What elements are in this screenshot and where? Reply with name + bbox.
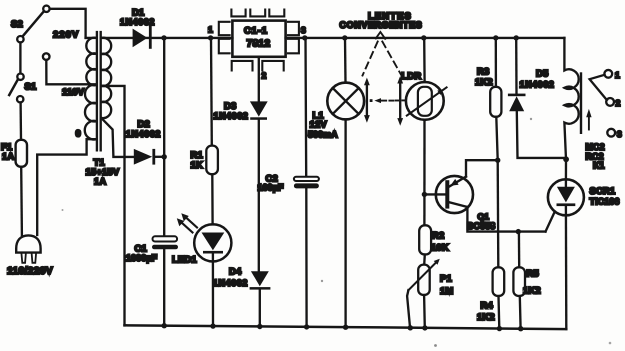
terminal 110V circle [43,53,50,60]
svg-text:110V: 110V [62,86,85,97]
svg-text:1A: 1A [94,176,106,187]
lens 2 [397,76,403,126]
svg-text:MC2: MC2 [586,142,605,152]
pointer vertex [376,32,385,39]
wire P1 to rail [423,295,426,328]
heatsink fin top 3 [269,10,284,17]
relay K1 coil [564,38,578,159]
junction dot D5 top [514,35,519,40]
svg-text:1K2: 1K2 [477,311,495,322]
relay armature arrow [586,109,591,130]
wire pin 2 down [258,57,260,102]
wire S1 to fuse [19,103,22,140]
svg-text:D2: D2 [138,118,150,129]
svg-text:1K: 1K [191,159,203,170]
junction dot rail C1 [162,323,167,328]
svg-text:CONVERGENTES: CONVERGENTES [340,20,423,30]
svg-text:C1: C1 [135,243,147,254]
plug prong 1 [21,253,26,263]
scan speck 5 [609,342,612,345]
potentiometer P1 [407,259,440,329]
top rail left segment [101,37,232,39]
diode D2 [134,149,164,165]
pointer dashed line left [363,42,378,76]
resistor R5 [513,267,525,296]
wire lamp top [344,38,347,83]
svg-text:1N4002: 1N4002 [520,80,555,90]
wire R4 to rail [497,296,500,329]
svg-text:R4: R4 [481,300,494,311]
scan speck 2 [62,209,64,211]
svg-text:12V: 12V [310,119,328,130]
wire R2 to P1 [423,255,426,265]
svg-text:2: 2 [616,98,621,108]
svg-text:R2: R2 [432,230,444,241]
wire 0 tap to plug prong2 [37,139,96,235]
svg-text:100µF: 100µF [258,183,285,193]
junction dot rail C2 [304,324,309,329]
heatsink fin top 2 [250,10,265,17]
junction dot D1 output [161,35,166,40]
svg-text:R3: R3 [477,66,489,77]
svg-text:10K: 10K [431,242,449,253]
top rail right segment [286,37,565,39]
svg-text:3: 3 [301,25,306,35]
junction dot Q1 base [422,192,427,197]
svg-text:S1: S1 [25,81,37,92]
transformer T1 primary winding upper [86,38,96,86]
wire LDR to base node [423,120,425,226]
svg-text:1K2: 1K2 [523,285,541,296]
light beam dash-dot arrow [370,98,406,103]
wire R3 top [495,38,497,87]
LED LED1 [194,224,231,261]
junction dot rail D4 [257,324,262,329]
svg-text:500mA: 500mA [308,130,338,140]
svg-text:BC558: BC558 [467,221,495,231]
wire Q1 emitter up [466,160,498,176]
scan speck 4 [530,118,532,120]
svg-text:0: 0 [76,128,81,139]
lens 1 [364,78,370,123]
relay contact 2 [606,98,614,106]
svg-text:TIC106: TIC106 [590,197,620,207]
wire R3 to node A [496,117,497,160]
svg-text:D5: D5 [536,68,548,79]
bottom rail [125,325,567,329]
wire D4 to rail [259,290,261,327]
LED1 light arrow 1 [181,213,197,227]
svg-text:SCR1: SCR1 [590,185,616,196]
heatsink fin top 1 [231,10,245,17]
heatsink fin bottom 2 [262,61,283,71]
capacitor C1 [152,236,178,249]
svg-text:1N4002: 1N4002 [120,17,155,27]
svg-text:C1-1: C1-1 [244,25,268,36]
regulator U1 body 7812 [232,21,285,57]
wire D3 to D4 [258,120,260,271]
junction dot LDR top [421,35,426,40]
scan speck 1 [321,280,323,282]
transistor Q1 [436,176,473,213]
wire lamp to rail [344,119,346,327]
svg-text:220V: 220V [53,29,79,40]
svg-text:1000µF: 1000µF [126,253,158,263]
wire S2 top to 220V tap [50,9,86,38]
diode D3 [250,101,268,119]
wire R5 tap down [518,232,521,268]
wire Q1 base [424,193,445,195]
junction dot rail R4 [497,326,502,331]
junction dot SCR anode [563,156,569,162]
plug prong 2 [32,253,36,263]
fuse F1 [16,140,27,167]
wire secondary bottom tap to D2 [101,118,133,157]
junction dot pin1 [208,35,213,40]
heatsink fin right 2 [288,39,299,54]
junction dot rail R5 [518,326,523,331]
svg-text:D3: D3 [224,100,236,111]
junction dot D2 output [162,154,167,159]
wire C1 to rail [163,249,165,325]
wire R1 column [210,38,213,146]
scan speck 3 [434,344,437,347]
wire 110V terminal to tap [46,60,96,84]
svg-text:P1: P1 [440,273,452,284]
heatsink fin left 1 [219,22,230,35]
diode D5 [508,94,566,160]
svg-text:1N4002: 1N4002 [214,111,249,121]
svg-text:D4: D4 [229,266,242,277]
junction dot R3 top [493,35,498,40]
relay contact 1 [604,70,612,78]
junction dot R5 tap [516,229,521,234]
resistor R2 [419,225,431,254]
plug body [16,235,40,252]
svg-text:LED1: LED1 [172,254,197,265]
pointer dashed line right [382,42,401,76]
junction dot rail LED1 [210,323,215,328]
svg-text:1N4002: 1N4002 [126,129,161,139]
wire R1 to LED1 [211,174,214,224]
svg-text:1: 1 [208,25,213,35]
relay switch arm [590,75,607,100]
relay contact 3 [607,129,615,137]
wire D5 top [515,38,518,94]
capacitor C2 [294,177,319,189]
diode D1 [133,26,152,49]
wire LED1 to rail [212,254,214,327]
wire node A to R4 [497,160,500,267]
svg-text:1A: 1A [2,151,14,162]
wire fuse to plug prong1 [20,167,23,235]
svg-text:3: 3 [617,129,622,139]
junction dot lamp top [342,35,347,40]
SCR1 [548,159,584,329]
wire rectified DC column [163,38,165,236]
lamp L1 [327,83,364,120]
resistor R4 [493,267,505,296]
LED1 light arrow 2 [177,218,193,232]
diode D4 [250,271,271,289]
wire C2 to rail [305,188,308,327]
junction dot pin3 [302,35,307,40]
heatsink fin bottom 1 [232,61,253,71]
svg-text:K1: K1 [593,161,605,171]
heatsink fin left 2 [219,39,230,54]
transformer T1 secondary winding [101,38,111,118]
wire secondary center tap [103,86,125,326]
junction dot node A [495,158,500,163]
svg-text:R5: R5 [527,268,539,279]
svg-text:Q1: Q1 [478,212,490,222]
junction dot rail P1 wiper [408,325,413,330]
relay core bar [580,74,582,133]
svg-text:110/220V: 110/220V [7,266,53,277]
LDR [406,82,447,120]
wire LDR top [423,38,426,82]
svg-text:7812: 7812 [247,39,271,50]
heatsink fin right 1 [288,22,299,35]
junction dot rail L1 [343,325,348,330]
transformer T1 primary winding lower [85,85,97,140]
switch S2 [17,6,49,43]
svg-text:1N4002: 1N4002 [213,278,248,288]
wire SCR gate [546,212,555,232]
svg-text:1: 1 [615,70,620,80]
wire R5 to rail [519,296,522,329]
junction dot rail P1 [422,325,427,330]
svg-text:LDR: LDR [402,70,422,81]
resistor R3 [490,87,501,117]
svg-text:2: 2 [262,71,267,81]
transformer core [96,32,98,150]
wire 220V tap [86,37,97,39]
wire S2 to S1 [19,43,21,74]
wire Q1 collector down [467,207,545,232]
wire C2 column [304,38,307,177]
svg-text:S2: S2 [11,18,23,29]
switch S1 [9,74,23,103]
svg-text:1K2: 1K2 [475,76,493,87]
svg-text:1M: 1M [440,285,453,296]
resistor R1 [206,146,218,175]
